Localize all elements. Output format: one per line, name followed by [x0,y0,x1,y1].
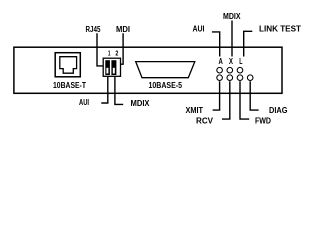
wire LED col2 to RCV [222,81,230,119]
RJ45 jack outer [55,53,80,77]
svg-text:MDI: MDI [116,25,130,34]
svg-text:L: L [239,57,242,66]
svg-text:MDIX: MDIX [131,99,151,108]
LED A row1 [217,67,223,73]
panel box [14,47,282,93]
svg-text:10BASE-T: 10BASE-T [53,81,86,90]
LED RCV row2 [227,75,233,81]
callout line AUI top [212,32,220,57]
callout line LINK TEST [244,31,253,56]
DIP switch body [103,58,120,76]
callout line RJ45 [97,33,103,66]
svg-text:LINK TEST: LINK TEST [259,25,301,34]
AUI connector DB15 [136,62,195,78]
svg-text:MDIX: MDIX [223,12,241,21]
wire DIP switch 2 to MDIX label [115,77,123,105]
svg-text:1: 1 [108,49,111,58]
wire LED col4 to DIAG [250,81,258,110]
svg-text:FWD: FWD [255,117,271,126]
RJ45 jack socket [60,57,77,73]
callout line MDIX top [231,21,233,57]
svg-text:A: A [219,57,223,66]
svg-text:XMIT: XMIT [186,106,204,115]
svg-text:AUI: AUI [193,25,205,34]
svg-text:DIAG: DIAG [269,106,288,115]
svg-text:AUI: AUI [79,98,89,107]
LED XMIT row2 [217,75,223,81]
LED FWD row2 [237,75,243,81]
svg-text:2: 2 [115,49,118,58]
callout line MDI [121,33,123,64]
wire DIP switch 1 to AUI label [101,77,108,103]
LED DIAG row2 [247,75,253,81]
wire LED col3 to FWD [240,81,249,119]
DIP switch 1 [105,60,110,75]
wire LED col1 to XMIT [213,81,220,110]
svg-text:RJ45: RJ45 [86,25,101,34]
svg-text:RCV: RCV [196,117,214,126]
svg-text:10BASE-5: 10BASE-5 [149,81,183,90]
LED L row1 [237,67,243,73]
svg-text:X: X [229,57,234,66]
DIP switch 2 [111,60,116,75]
LED X row1 [227,67,233,73]
